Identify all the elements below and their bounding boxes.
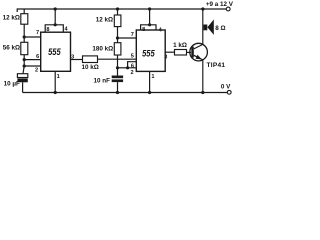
svg-text:7: 7 [36,30,39,36]
svg-text:1: 1 [151,74,154,80]
wire R3 to IC2 pin5 [98,58,137,60]
node junction bracket top IC1 [54,23,57,26]
svg-text:56 kΩ: 56 kΩ [3,44,20,51]
svg-text:2: 2 [35,67,38,73]
svg-text:6: 6 [36,54,39,60]
node junction C2 on rail [116,91,119,94]
svg-text:12 kΩ: 12 kΩ [3,15,20,22]
wire supply bracket IC2 pins 8/4 [141,25,156,30]
wire bottom ground rail [23,92,228,94]
wire R4 bottom to R5 top [117,27,119,43]
node junction bracket top IC2 [148,23,151,26]
svg-text:10 nF: 10 nF [94,78,111,85]
node junction R1/R2 to pin7 [23,35,26,38]
wire C2 bottom lead to rail [117,82,119,92]
node junction R5 bottom [116,66,119,69]
svg-text:1: 1 [57,74,60,80]
wire IC1 pin1 to ground [54,71,56,92]
node junction top rail at IC2 supply [148,7,151,10]
svg-text:1 kΩ: 1 kΩ [173,42,187,49]
resistor R4 12 kOhm vertical mid [114,15,121,27]
svg-text:555: 555 [142,49,155,59]
wire to IC1 pin 2 [24,65,41,67]
wire IC1 pin3 out [71,59,83,61]
wire rail to IC1 bracket [54,9,56,25]
wire R6 to transistor base [187,51,192,53]
wire C1 bottom to ground rail [22,82,24,92]
emitter arrow [196,55,203,62]
wire node to 6/2 bracket [118,67,128,69]
capacitor C2 10 nF [112,76,123,79]
wire IC2 pin3 out [165,51,174,53]
wire supply bracket IC1 pins 8/4 [45,25,63,32]
op-amp U1 555 timer IC1 [41,32,71,71]
node junction top rail at IC1 supply [54,7,57,10]
svg-text:+9 a 12 V: +9 a 12 V [206,1,234,8]
node junction top rail at speaker [201,7,204,10]
node junction R4/R5 to pin7 IC2 [116,36,119,39]
speaker LS1 [203,25,207,31]
terminal +V [226,7,230,11]
node junction emitter on rail [201,91,204,94]
resistor R6 1 kOhm horizontal [175,50,187,56]
svg-text:3: 3 [164,54,167,60]
wire bracket IC2 pins 6/2 [128,62,137,68]
wire emitter diagonal [194,55,203,92]
svg-text:5: 5 [131,54,134,60]
wire R1 top to rail [23,9,25,14]
svg-text:8 Ω: 8 Ω [215,25,225,32]
node junction top rail at mid chain [116,7,119,10]
terminal 0V [227,90,231,94]
wire rail to IC2 bracket [149,9,151,25]
node junction at bracket corner [126,66,129,69]
wire to IC1 pin 6 [24,59,41,61]
wire R1 bottom to R2 top [23,24,25,42]
wire C2 top lead [117,68,119,76]
wire rail to R4 [117,9,119,15]
capacitor C1 10 uF electrolytic [17,74,27,78]
svg-text:10 kΩ: 10 kΩ [82,64,99,71]
resistor R3 10 kOhm horizontal [83,56,98,63]
wire top supply rail [17,9,226,12]
node junction to pin 6 [23,58,26,61]
resistor R2 56 kOhm vertical left [21,42,28,54]
resistor R1 12 kOhm vertical left [21,14,28,25]
wire R5 bottom down to node [117,55,119,68]
svg-text:555: 555 [48,47,61,57]
op-amp U2 555 timer IC2 [136,30,165,71]
svg-text:10 µF: 10 µF [4,80,20,87]
svg-text:12 kΩ: 12 kΩ [96,16,113,23]
resistor R5 180 kOhm vertical mid [114,43,121,55]
wire R2 bottom down to capacitor [23,55,24,74]
wire to IC2 pin 7 [118,37,137,39]
node junction pin1 IC2 on rail [148,91,151,94]
svg-text:0 V: 0 V [221,84,231,91]
svg-text:6: 6 [131,63,134,69]
svg-text:7: 7 [131,32,134,38]
wire IC2 pin1 to ground [149,71,151,92]
svg-text:8: 8 [142,27,145,33]
svg-text:2: 2 [130,70,133,76]
node junction pin1 IC1 on rail [54,91,57,94]
wire to IC1 pin 7 [24,36,41,38]
svg-text:TIP41: TIP41 [207,62,226,69]
svg-text:8: 8 [46,27,49,33]
svg-text:180 kΩ: 180 kΩ [92,46,113,53]
wire collector diagonal [194,9,203,49]
transistor Q1 TIP41 [190,43,208,61]
node junction to pin 2 [23,64,26,67]
